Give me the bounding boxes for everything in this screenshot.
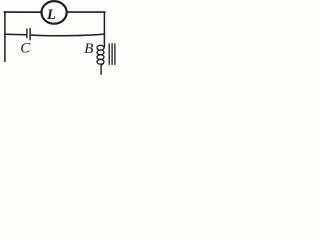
wire top-right horizontal [67, 11, 105, 13]
core line 2 [111, 44, 113, 65]
wire coil tail [101, 64, 103, 75]
wire middle-left horizontal [5, 33, 27, 35]
wire coil feed [103, 34, 105, 47]
svg-text:C: C [20, 41, 31, 57]
wire left vertical [4, 12, 6, 62]
wire right vertical [103, 12, 105, 34]
lamp L1 [42, 1, 67, 24]
core line 3 [114, 44, 116, 64]
inductor B1 loop 3 [97, 55, 104, 60]
capacitor C1 right plate [29, 29, 31, 40]
wire top-left horizontal [4, 11, 42, 13]
inductor B1 loop 1 [97, 45, 104, 50]
svg-text:L: L [46, 7, 56, 23]
inductor B1 loop 4 [97, 59, 104, 64]
core line 1 [108, 44, 110, 64]
svg-text:B: B [84, 41, 93, 57]
inductor B1 loop 2 [97, 50, 104, 55]
wire middle-right horizontal [30, 34, 104, 36]
capacitor C1 left plate [26, 29, 28, 37]
